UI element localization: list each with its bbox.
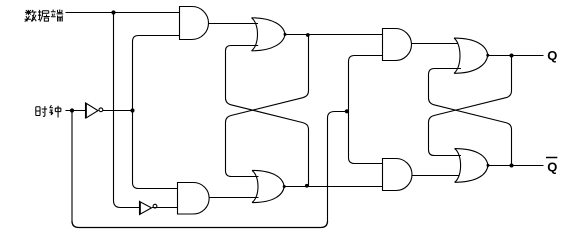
wire inverter U2 output to AND2 input 2: [152, 207, 178, 209]
node OR3 tip: [486, 54, 489, 57]
node 数据端 (data input label): [25, 10, 64, 22]
wire inverted clock down to AND2 input 1: [133, 111, 178, 189]
inverter U1 (clock): [86, 102, 103, 118]
wire OR4 output to Qbar: [488, 165, 544, 167]
node OR1 output junction: [306, 33, 310, 37]
wire AND1 output to OR1: [209, 23, 259, 25]
wire feedback OR2 to OR1 input 2 (cross): [226, 46, 309, 187]
node 时钟 (clock label): [36, 105, 61, 117]
wire clock stub: [66, 110, 86, 112]
wire OR1 output to AND3 input 1: [285, 34, 383, 36]
wire AND3 output to OR3: [412, 43, 459, 45]
wire feedback OR4 to OR3 input 2 (cross): [429, 69, 512, 166]
wire data horizontal to AND1: [66, 12, 180, 14]
node OR4 tip: [487, 164, 490, 167]
wire data vertical down to inverter U2: [114, 13, 140, 208]
wire slave clock vertical AND3 in2 / AND4 in1: [349, 56, 383, 164]
wire Qbar overline: [546, 157, 557, 159]
svg-text:Q: Q: [547, 48, 557, 63]
node slave clock junction: [345, 109, 349, 113]
node OR2 tip: [283, 185, 286, 188]
and gate A4: [383, 159, 413, 191]
or gate O2: [252, 170, 284, 202]
wire inverted clock up to AND1 input 2: [133, 36, 180, 111]
wire bottom clock rail: [72, 221, 328, 228]
wire OR3 output to Q: [488, 55, 544, 57]
and gate A1: [180, 7, 209, 40]
wire clock down, bottom rail, riser to slave stage: [71, 111, 73, 222]
inverter U2 (data): [140, 201, 157, 216]
and gate A3: [383, 29, 412, 61]
or gate O1: [252, 18, 286, 51]
node data junction: [111, 10, 115, 14]
wire AND2 output to OR2: [209, 197, 259, 199]
wire inverted clock to branch node: [103, 110, 133, 112]
or gate O3: [454, 38, 488, 73]
node Q junction: [510, 54, 514, 58]
wire feedback OR3 to OR4 input 1 (cross): [429, 56, 512, 156]
node clock junction: [70, 108, 74, 112]
wire riser to slave clock: [328, 112, 349, 222]
svg-text:Q: Q: [547, 160, 557, 175]
wire feedback OR1 to OR2 input 1 (cross): [226, 35, 309, 177]
wire AND4 output to OR4: [412, 175, 459, 177]
or gate O4: [455, 149, 488, 183]
node inverted clock junction: [130, 108, 134, 112]
wire OR2 output to AND4 input 2: [284, 186, 382, 188]
node OR1 tip: [284, 33, 287, 36]
node OR2 output junction: [305, 184, 309, 188]
and gate A2: [178, 183, 210, 215]
node Qbar junction: [510, 164, 514, 168]
